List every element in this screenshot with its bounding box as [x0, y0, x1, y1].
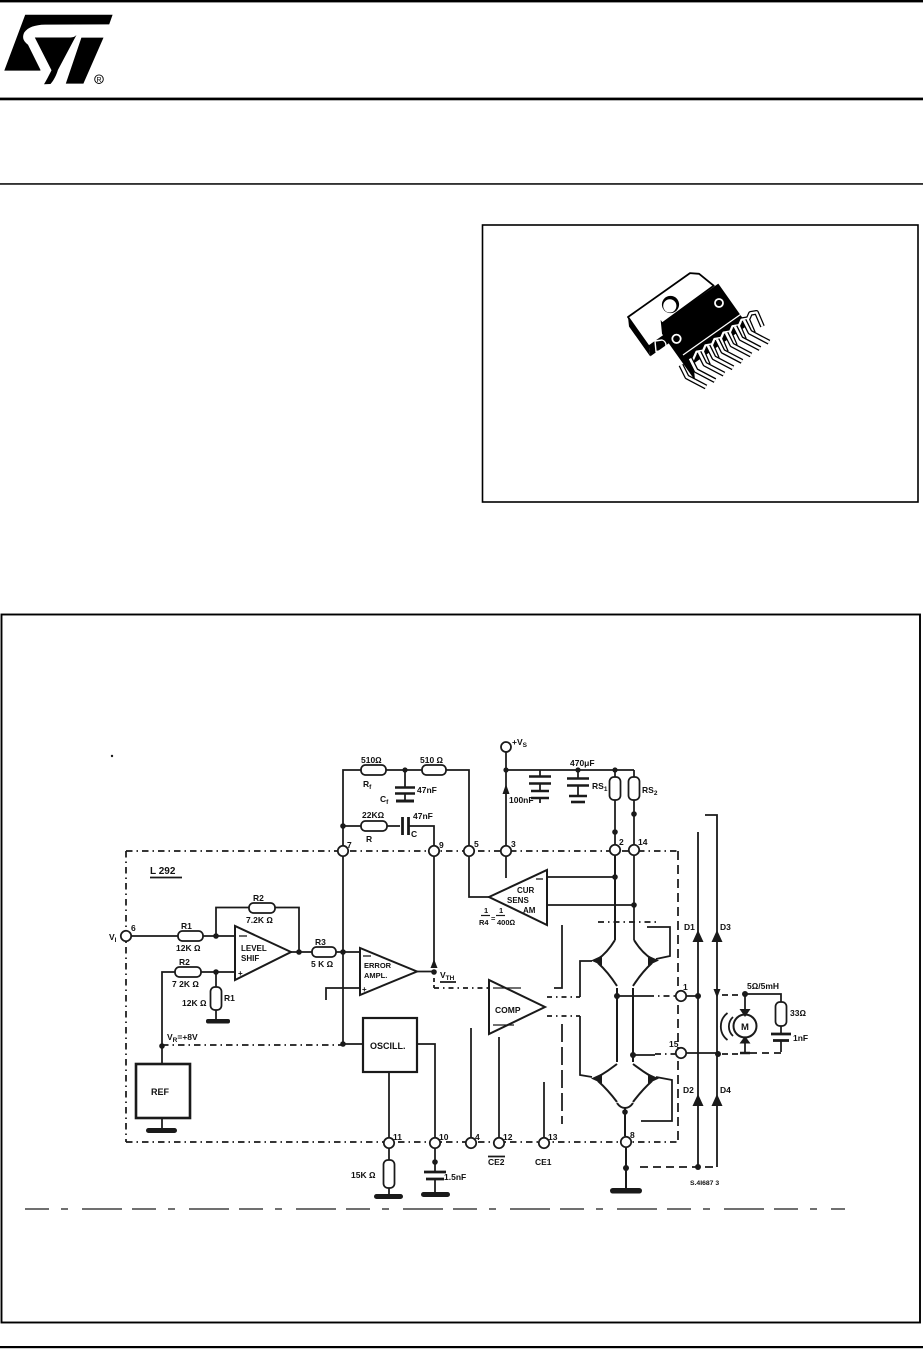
svg-text:VTH: VTH	[440, 970, 455, 982]
ground under 15K	[374, 1194, 403, 1199]
wire oscill left input	[343, 1043, 363, 1045]
junction D2 bottom	[695, 1164, 701, 1170]
L292 label	[150, 866, 182, 878]
wire motor to bottom rail	[744, 1043, 746, 1053]
wire pin1 to D1	[686, 995, 700, 997]
capacitor 1.5nF	[424, 1148, 466, 1192]
wire between 510 resistors	[386, 769, 422, 771]
package box	[483, 225, 919, 502]
junction below pin8	[623, 1165, 629, 1171]
diode D1 line	[697, 832, 699, 1168]
junction RS2 bottom	[631, 811, 637, 817]
wire pin2 column to bridge	[614, 856, 616, 940]
op-amp CUR SENS AM	[489, 870, 547, 925]
svg-text:8: 8	[630, 1130, 635, 1140]
svg-text:R: R	[96, 77, 101, 84]
diode D3	[712, 922, 732, 942]
wire pin7 column down	[342, 857, 344, 1044]
svg-text:33Ω: 33Ω	[790, 1008, 806, 1018]
wire C to pin 9	[409, 826, 434, 845]
svg-text:CE2: CE2	[488, 1157, 505, 1167]
wire Vs to pin 3	[505, 752, 507, 845]
svg-text:1: 1	[683, 982, 688, 992]
supply rail	[506, 769, 634, 771]
pin 10	[430, 1132, 449, 1148]
pin 7	[338, 840, 352, 856]
back row pins	[693, 312, 763, 364]
svg-text:R2: R2	[179, 957, 190, 967]
svg-text:+: +	[238, 969, 243, 978]
svg-text:47nF: 47nF	[417, 785, 437, 795]
junction Rf midpoint	[402, 767, 407, 772]
wire pin14 column to bridge	[633, 856, 635, 940]
bottom rule	[0, 1346, 923, 1348]
svg-text:7: 7	[347, 840, 352, 850]
motor arrow bottom	[740, 1036, 751, 1044]
stray mark	[111, 755, 113, 757]
pin 9	[429, 840, 444, 856]
ST logo	[4, 15, 112, 85]
main frame	[2, 615, 921, 1323]
front row pins	[681, 320, 769, 387]
pin 15	[669, 1039, 686, 1058]
svg-text:SHIF: SHIF	[241, 954, 259, 963]
motor node	[742, 991, 748, 997]
comparator COMP	[489, 980, 545, 1034]
wire output2 to pin15	[633, 1054, 655, 1056]
svg-text:R1: R1	[224, 993, 235, 1003]
svg-text:AMPL.: AMPL.	[364, 971, 387, 980]
wire cur sense + input	[547, 904, 634, 906]
wire feedback down to output	[275, 908, 299, 953]
wire pin15 to D3 column	[686, 1052, 719, 1054]
wire oscill bottom to pin 11	[388, 1072, 390, 1137]
tab thickness face	[628, 317, 650, 356]
wire R2 to + input	[201, 971, 235, 973]
wire R3 to error amp	[336, 951, 360, 953]
diode D2	[683, 1085, 704, 1106]
motor terminal bar	[740, 1052, 750, 1055]
svg-text:COMP: COMP	[495, 1005, 521, 1015]
thin rule	[0, 183, 923, 185]
svg-text:D3: D3	[720, 922, 731, 932]
junction output1	[614, 993, 620, 999]
junction at pin7 column / 22K	[340, 823, 346, 829]
resistor R1 12K to ground	[182, 972, 235, 1019]
dash comp output upper	[547, 996, 580, 998]
ground under 1.5nF	[421, 1192, 450, 1197]
svg-text:9: 9	[439, 840, 444, 850]
svg-text:SENS: SENS	[507, 896, 529, 905]
wire 22K left	[343, 825, 361, 827]
svg-text:M: M	[741, 1022, 749, 1033]
emitter arrow Q3	[591, 1074, 602, 1084]
body edge highlight	[683, 315, 740, 355]
svg-text:12: 12	[503, 1132, 513, 1142]
transistor Q3 lower-left	[598, 1064, 617, 1077]
junction 470uF	[575, 767, 580, 772]
svg-text:100nF: 100nF	[509, 795, 534, 805]
Multiwatt-15 package drawing	[628, 273, 769, 387]
ground under pin8	[610, 1188, 642, 1194]
junction R2/R1g node	[213, 969, 219, 975]
svg-text:D2: D2	[683, 1085, 694, 1095]
resistor R2 7.2K lower	[172, 957, 201, 989]
svg-text:CE1: CE1	[535, 1157, 552, 1167]
capacitor 100nF	[509, 770, 551, 805]
svg-text:R3: R3	[315, 937, 326, 947]
svg-text:2: 2	[619, 837, 624, 847]
svg-text:3: 3	[511, 839, 516, 849]
pin 4	[466, 1132, 480, 1148]
svg-text:5 K Ω: 5 K Ω	[311, 959, 334, 969]
svg-text:11: 11	[393, 1132, 402, 1142]
junction RS1 bottom	[612, 829, 618, 835]
emitter arrow Q1	[591, 956, 602, 966]
dash D3 to motor node	[722, 994, 742, 996]
svg-text:15: 15	[669, 1039, 679, 1049]
wire 510 right drop to pin 5	[446, 770, 469, 845]
transistor Q2 upper-right	[634, 940, 652, 959]
svg-text:D4: D4	[720, 1085, 731, 1095]
svg-text:L 292: L 292	[150, 866, 176, 877]
svg-text:Rf: Rf	[363, 779, 372, 791]
svg-text:510Ω: 510Ω	[361, 755, 382, 765]
svg-text:15K Ω: 15K Ω	[351, 1170, 376, 1180]
junction on pin14 column	[631, 902, 637, 908]
svg-text:13: 13	[548, 1132, 558, 1142]
svg-text:400Ω: 400Ω	[497, 918, 516, 927]
wire cur sens to comp column	[554, 925, 562, 988]
resistor Rf2 510ohm	[420, 755, 446, 775]
junction level shifter output	[296, 949, 302, 955]
resistor R1 12K input	[176, 921, 203, 953]
top border line	[0, 0, 923, 2]
wire bridge to pin 8	[624, 1108, 626, 1136]
junction on pin2 column	[612, 874, 618, 880]
dash wire VTH to comp	[433, 978, 435, 988]
dash-dot VR line	[162, 1044, 343, 1046]
VTH node	[431, 959, 457, 982]
pin 12	[494, 1132, 513, 1148]
emitter arrow Q4	[648, 1074, 659, 1084]
wire R1 to level shifter	[203, 935, 235, 937]
pin 5	[464, 839, 479, 856]
svg-text:S.4I687 3: S.4I687 3	[690, 1180, 719, 1187]
Vs supply terminal	[501, 737, 528, 752]
resistor RS2	[629, 770, 658, 845]
wire node to snubber	[745, 994, 781, 1002]
capacitor C 47nF	[403, 811, 433, 839]
bottom dashed row	[25, 1208, 845, 1210]
resistor RS1	[592, 767, 621, 845]
svg-text:5: 5	[474, 839, 479, 849]
wire pin12 column	[498, 1037, 500, 1137]
wire bridge bottom converge	[617, 1103, 633, 1108]
svg-text:R1: R1	[181, 921, 192, 931]
op-amp LEVEL SHIF	[235, 926, 291, 980]
diode D1	[684, 922, 704, 942]
wire VR to REF	[161, 1046, 163, 1064]
junction D3 output	[715, 1051, 721, 1057]
svg-text:AM: AM	[523, 906, 536, 915]
svg-text:5Ω/5mH: 5Ω/5mH	[747, 981, 779, 991]
capacitor Cf 47nF	[380, 770, 437, 806]
svg-text:R2: R2	[253, 893, 264, 903]
dash output2 to pin15	[655, 1053, 676, 1055]
wire node to motor	[744, 994, 746, 1010]
pin 6 / Vi input	[109, 923, 136, 944]
dash motor to cap bottom	[750, 1052, 781, 1054]
wire R2 left to VR	[162, 972, 175, 1046]
op-amp ERROR AMPL	[360, 948, 417, 995]
svg-text:22KΩ: 22KΩ	[362, 810, 385, 820]
REF block	[136, 1064, 190, 1118]
wire oscill right to pin 10	[417, 1044, 435, 1137]
svg-text:12K Ω: 12K Ω	[176, 943, 201, 953]
svg-text:1: 1	[499, 906, 503, 915]
arrow on D3 line	[714, 989, 721, 998]
wire 22K to C	[387, 825, 400, 827]
svg-text:D1: D1	[684, 922, 695, 932]
capacitor 1nF	[771, 1033, 808, 1052]
wire pin6 to R1	[131, 935, 178, 937]
VR node	[159, 1032, 198, 1049]
svg-text:14: 14	[638, 837, 648, 847]
L292 IC dashed boundary box	[126, 851, 680, 1142]
corner notch	[655, 340, 666, 352]
junction oscill input	[340, 1041, 346, 1047]
dash drive line upper	[598, 921, 660, 923]
wire pin5 to cur sense tip	[469, 857, 489, 897]
wire pin3 to cur sense supply	[505, 856, 507, 878]
junction R1/R2 node	[213, 933, 219, 939]
resistor R3 5K	[311, 937, 336, 969]
wire bridge center column right	[632, 988, 634, 1062]
arrow on Vs wire	[503, 784, 510, 794]
wire pin4 column	[470, 1028, 472, 1137]
wire pin13 column	[543, 1082, 545, 1137]
svg-text:Cf: Cf	[380, 794, 389, 806]
svg-text:C: C	[411, 829, 417, 839]
svg-text:1nF: 1nF	[793, 1033, 808, 1043]
wire comp to upper bridge base	[580, 961, 592, 997]
base bracket Q4	[641, 1077, 672, 1121]
svg-text:510 Ω: 510 Ω	[420, 755, 444, 765]
svg-text:12K Ω: 12K Ω	[182, 998, 207, 1008]
wire REF to ground	[161, 1118, 163, 1128]
wire CE1 column	[561, 1024, 563, 1124]
svg-text:1: 1	[484, 906, 488, 915]
wire 510 feedback left drop to pin 7	[343, 770, 361, 845]
dash comp output lower	[547, 1015, 580, 1017]
OSCILL block	[363, 1018, 417, 1072]
pin 13	[539, 1132, 558, 1148]
svg-text:6: 6	[131, 923, 136, 933]
svg-text:RS2: RS2	[642, 785, 658, 797]
capacitor 470uF	[567, 758, 595, 802]
pin 14	[629, 837, 648, 855]
svg-text:+VS: +VS	[512, 737, 528, 749]
resistor Rf1 510ohm	[361, 755, 386, 775]
wire bridge center column left	[616, 988, 618, 1062]
wire error amp output to VTH	[417, 971, 434, 973]
thick rule	[0, 98, 923, 101]
svg-text:R: R	[366, 834, 372, 844]
wire output to R3	[291, 951, 312, 953]
dash output1 to pin1	[648, 995, 676, 997]
svg-text:7 2K Ω: 7 2K Ω	[172, 979, 199, 989]
svg-text:RS1: RS1	[592, 781, 608, 793]
svg-text:1.5nF: 1.5nF	[444, 1172, 466, 1182]
resistor 33ohm	[776, 1002, 807, 1033]
svg-text:7.2K Ω: 7.2K Ω	[246, 915, 273, 925]
svg-text:VI: VI	[109, 932, 117, 944]
svg-text:CUR: CUR	[517, 886, 535, 895]
svg-text:VR=+8V: VR=+8V	[167, 1032, 198, 1044]
motor arrow top	[740, 1009, 751, 1017]
svg-text:=: =	[491, 914, 496, 923]
svg-text:10: 10	[439, 1132, 449, 1142]
junction D1 output	[695, 993, 701, 999]
svg-text:R4: R4	[479, 918, 489, 927]
motor sound arcs	[729, 1017, 733, 1036]
junction pin7 column	[340, 949, 346, 955]
wire cur sense - input	[547, 876, 616, 878]
pin 3	[501, 839, 516, 856]
junction above pin8	[622, 1109, 628, 1115]
svg-text:470μF: 470μF	[570, 758, 595, 768]
label CE2	[488, 1157, 505, 1168]
pin 11	[384, 1132, 402, 1148]
resistor R2 7.2K feedback	[246, 893, 275, 925]
dash bottom rail to motor	[722, 1053, 740, 1055]
body left side face	[662, 324, 694, 377]
wire pin9 column	[433, 857, 435, 962]
diode D3 line	[705, 815, 717, 1167]
transistor Q4 lower-right	[633, 1064, 652, 1077]
pin 1	[676, 982, 688, 1001]
svg-text:+: +	[362, 985, 367, 994]
base bracket Q2	[647, 927, 670, 959]
svg-text:LEVEL: LEVEL	[241, 944, 267, 953]
svg-text:ERROR: ERROR	[364, 961, 392, 970]
metal tab	[628, 273, 714, 346]
junction Vs rail	[503, 767, 508, 772]
transistor Q1 upper-left	[598, 940, 615, 959]
wire output1 to pin1	[617, 995, 648, 997]
emitter arrow Q2	[648, 956, 659, 966]
wire comp to lower bridge base	[580, 1016, 592, 1077]
pin 2	[610, 837, 624, 855]
resistor 15K	[351, 1148, 395, 1194]
tab hole	[662, 296, 679, 313]
diode D4	[712, 1085, 732, 1106]
label 1/R4 = 1/400	[479, 906, 516, 927]
ground under R1	[206, 1019, 230, 1024]
plastic body	[662, 284, 748, 366]
resistor R 22K	[361, 810, 387, 844]
pin 8	[621, 1130, 635, 1147]
junction output2	[630, 1052, 636, 1058]
motor M	[734, 1015, 757, 1038]
svg-text:47nF: 47nF	[413, 811, 433, 821]
dash ground return	[640, 1166, 717, 1168]
wire pin8 to ground	[625, 1148, 627, 1188]
svg-text:4: 4	[475, 1132, 480, 1142]
body circles	[672, 335, 680, 343]
ground under REF	[146, 1128, 177, 1133]
wire error amp + input	[326, 988, 360, 1000]
svg-text:OSCILL.: OSCILL.	[370, 1041, 406, 1051]
svg-text:REF: REF	[151, 1087, 170, 1097]
wire feedback up	[216, 908, 249, 937]
